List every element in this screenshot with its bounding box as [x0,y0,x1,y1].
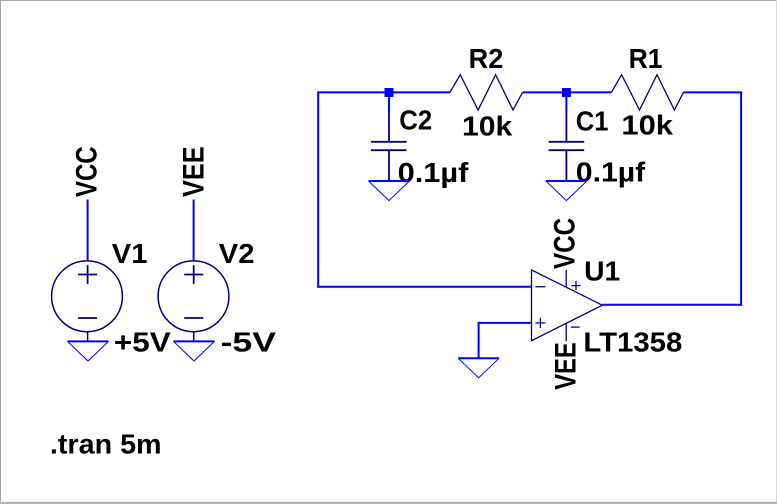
svg-text:VEE: VEE [550,342,583,390]
svg-text:C2: C2 [399,105,432,136]
ground (V2) [174,341,215,361]
wire (C1 stub) [565,92,567,112]
svg-text:.tran 5m: .tran 5m [50,428,162,459]
ground (noninverting input) [458,358,499,378]
node junction (C1 top) [562,88,571,97]
svg-text:VEE: VEE [177,146,210,197]
wire (inverting input horizontal) [317,286,531,288]
svg-text:0.1µf: 0.1µf [576,156,646,187]
wire [193,200,195,262]
ground (C2) [369,181,410,201]
ground (C1) [546,181,587,201]
wire (left vertical) [317,91,319,287]
op-amp U1 [532,270,603,342]
voltage source V1 [52,261,123,342]
svg-text:10k: 10k [621,110,673,141]
svg-text:U1: U1 [584,256,620,287]
svg-text:10k: 10k [462,110,513,141]
svg-text:V1: V1 [112,238,148,269]
wire (C2 stub) [388,92,390,112]
wire [87,200,89,262]
svg-text:V2: V2 [219,238,255,269]
wire (output horizontal) [602,304,742,306]
wire (right vertical) [740,91,742,305]
svg-text:VCC: VCC [548,218,581,269]
svg-text:-5V: -5V [221,327,277,358]
resistor R2 [450,75,523,110]
voltage source V2 [158,261,229,342]
capacitor C2 [371,112,407,181]
wire (top right horizontal) [683,91,741,93]
svg-text:+5V: +5V [114,327,171,358]
ground (V1) [68,341,109,361]
resistor R1 [611,75,683,110]
wire (top middle horizontal) [523,91,612,93]
capacitor C1 [549,112,585,181]
svg-text:R1: R1 [629,43,663,74]
svg-text:LT1358: LT1358 [583,327,682,358]
svg-text:VCC: VCC [71,146,104,197]
svg-text:C1: C1 [576,105,609,136]
node junction (C2 top) [385,88,394,97]
wire (top left horizontal) [318,91,450,93]
wire (noninverting input horizontal) [479,322,532,324]
wire (to ground) [478,322,480,358]
svg-text:R2: R2 [469,43,504,74]
svg-text:0.1µf: 0.1µf [398,157,470,188]
